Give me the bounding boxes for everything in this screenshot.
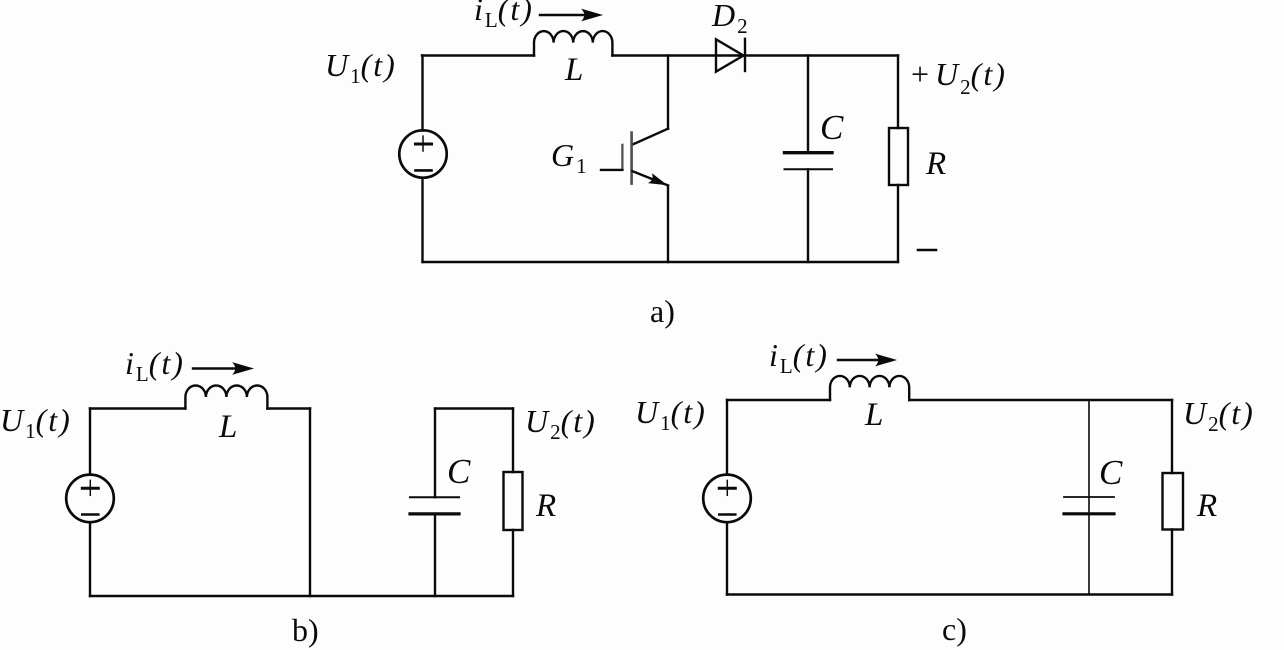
- svg-text:a): a): [650, 293, 675, 329]
- svg-text:C: C: [447, 452, 471, 491]
- capacitor C (a) top plate: [785, 151, 833, 154]
- current arrow iL (c): [838, 359, 890, 361]
- wire c right vertical lower: [1171, 530, 1173, 595]
- diode D2 cathode bar: [744, 39, 746, 71]
- wire b bottom horizontal: [90, 595, 513, 597]
- wire a top-right horizontal: [612, 54, 898, 56]
- source plus sign (b): [82, 487, 98, 490]
- wire a bottom horizontal: [423, 261, 899, 263]
- wire a left vertical upper: [421, 56, 423, 131]
- wire b left vertical upper: [89, 409, 91, 475]
- wire a right vertical lower: [897, 185, 899, 262]
- resistor R (a): [889, 128, 908, 185]
- wire b top-left horizontal: [90, 407, 185, 409]
- capacitor C (b) top plate: [410, 496, 459, 498]
- wire b left vertical lower: [89, 522, 91, 596]
- resistor R (b): [504, 472, 523, 530]
- inductor L (b): [185, 386, 267, 409]
- resistor R (c): [1163, 473, 1184, 530]
- minus label (a) output: [918, 249, 936, 252]
- wire c top horizontal after L: [909, 399, 1172, 401]
- current arrow iL (a): [540, 14, 594, 16]
- capacitor C (a) bottom plate: [785, 168, 833, 170]
- source minus sign (a): [416, 169, 432, 172]
- capacitor C (a) top lead: [807, 56, 809, 153]
- voltage source U1 (c) circle: [703, 475, 751, 523]
- source minus sign (b): [82, 513, 98, 516]
- current arrow iL (b): [193, 367, 247, 369]
- transistor Q1 collector wire: [667, 56, 669, 129]
- svg-text:L: L: [218, 409, 237, 445]
- svg-text:c): c): [942, 611, 967, 647]
- wire b top-right horizontal: [435, 407, 513, 409]
- inductor L (a): [534, 31, 612, 55]
- voltage source U1 (b) circle: [66, 475, 114, 523]
- wire a left vertical lower: [421, 178, 423, 262]
- capacitor C (b) bottom plate: [410, 512, 459, 515]
- svg-text:iL(t): iL(t): [125, 345, 185, 386]
- transistor Q1 body bar: [630, 133, 633, 184]
- svg-text:U1(t): U1(t): [0, 402, 72, 443]
- wire c top-left horizontal: [727, 399, 830, 401]
- svg-text:L: L: [564, 52, 583, 88]
- capacitor C (c) bottom plate: [1064, 512, 1114, 515]
- svg-text:iL(t): iL(t): [769, 337, 829, 378]
- capacitor C (a) bottom lead: [807, 169, 809, 262]
- source plus sign (a): [416, 143, 432, 146]
- wire c left vertical upper: [726, 400, 728, 475]
- capacitor C (c) through lead: [1088, 400, 1090, 595]
- capacitor C (c) top plate: [1064, 496, 1114, 498]
- svg-text:R: R: [1196, 488, 1217, 524]
- source plus sign (c): [719, 487, 735, 490]
- svg-text:U1(t): U1(t): [325, 47, 397, 88]
- wire b mid vertical: [309, 409, 311, 597]
- svg-text:L: L: [864, 397, 883, 433]
- diode D2 triangle: [716, 39, 744, 71]
- capacitor C (b) top lead: [434, 409, 436, 498]
- svg-text:R: R: [925, 146, 946, 182]
- wire c left vertical lower: [726, 522, 728, 594]
- transistor Q1 gate bar: [621, 145, 623, 170]
- wire a top-left horizontal: [422, 54, 534, 56]
- wire b top horizontal after L: [267, 407, 310, 409]
- wire c bottom horizontal: [727, 593, 1172, 595]
- transistor Q1 emitter wire: [667, 186, 669, 262]
- svg-text:U1(t): U1(t): [635, 394, 707, 435]
- svg-text:C: C: [1099, 453, 1123, 492]
- inductor L (c): [830, 376, 909, 400]
- svg-text:U2(t): U2(t): [525, 403, 597, 444]
- voltage source U1 (a) circle: [399, 130, 446, 177]
- svg-text:R: R: [535, 488, 556, 524]
- wire b right vertical lower: [512, 530, 514, 596]
- source minus sign (c): [719, 513, 735, 516]
- wire b right vertical upper: [512, 409, 514, 473]
- transistor Q1 collector diagonal: [633, 129, 669, 145]
- svg-text:C: C: [820, 108, 844, 147]
- capacitor C (b) bottom lead: [434, 514, 436, 596]
- transistor Q1 gate lead: [601, 169, 622, 171]
- transistor Q1 emitter diagonal with arrow: [633, 171, 669, 185]
- wire c right vertical upper: [1171, 400, 1173, 473]
- svg-text:U2(t): U2(t): [1183, 395, 1255, 436]
- svg-text:b): b): [292, 612, 319, 648]
- wire a right vertical upper: [897, 56, 899, 129]
